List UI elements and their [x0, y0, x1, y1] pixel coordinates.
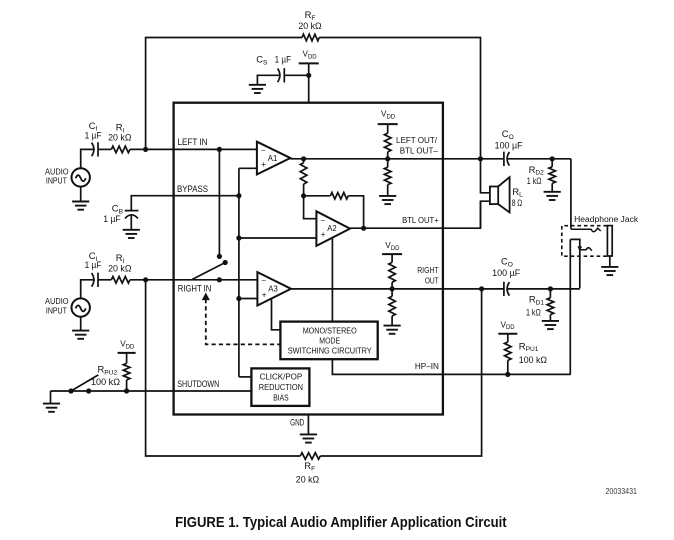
svg-text:INPUT: INPUT: [46, 306, 68, 316]
resistor RI (left): [111, 146, 130, 153]
wire bias rail to click/pop block: [239, 376, 252, 378]
resistor RPU1: [505, 334, 512, 375]
wire A1 output (LEFT OUT): [290, 158, 504, 160]
wire top feedback loop left segment: [146, 38, 302, 150]
node bias rail / A3 junction: [236, 296, 241, 301]
value 100 kOhm (RPU1): [519, 355, 548, 365]
speaker RL: [490, 177, 510, 212]
svg-text:HP–IN: HP–IN: [415, 361, 439, 371]
resistor A2 feedback: [330, 193, 348, 200]
pin label BTL OUT+: [402, 215, 439, 225]
node A2 output junction: [361, 226, 366, 231]
wire jack tip feed (from CO left): [570, 159, 572, 229]
pin label HP-IN: [415, 361, 439, 371]
label A1: [268, 154, 278, 163]
resistor left-out divider upper: [384, 124, 391, 159]
power VDD (left out divider): [378, 123, 398, 125]
resistor RD2: [549, 159, 556, 192]
svg-text:100 µF: 100 µF: [492, 268, 521, 278]
caption FIGURE 1: [175, 515, 507, 531]
pin label RIGHT IN: [178, 283, 212, 294]
wire A2 to mono/stereo block: [331, 238, 333, 322]
block MONO/STEREO MODE SWITCHING CIRCUITRY: [280, 322, 377, 360]
svg-text:BTL OUT–: BTL OUT–: [400, 145, 438, 155]
wire shutdown switch to ground: [51, 391, 72, 404]
node right input / feedback junction: [143, 277, 148, 282]
svg-text:SWITCHING CIRCUITRY: SWITCHING CIRCUITRY: [288, 347, 373, 356]
node mode switch on RIGHT IN wire: [217, 277, 222, 282]
svg-text:FIGURE 1. Typical Audio Amplif: FIGURE 1. Typical Audio Amplifier Applic…: [175, 515, 507, 531]
svg-text:100 µF: 100 µF: [495, 141, 524, 151]
svg-text:1 kΩ: 1 kΩ: [527, 176, 542, 186]
svg-text:VDD: VDD: [501, 320, 516, 331]
wire right source to ground: [80, 317, 82, 331]
IC block outline (amplifier): [174, 103, 443, 415]
node mode switch lever tip: [223, 260, 228, 265]
power VDD (right out divider): [382, 253, 402, 255]
label RI (right): [116, 252, 125, 265]
value 100 uF (CO left): [495, 141, 524, 151]
label RI (left): [116, 121, 125, 134]
ground (right-out divider): [384, 326, 401, 334]
figure number 20033431: [606, 486, 638, 496]
pin label RIGHT OUT: [417, 265, 439, 285]
wire bias rail to A3 plus input: [239, 298, 258, 300]
svg-text:RPU1: RPU1: [519, 340, 539, 353]
svg-text:MODE: MODE: [319, 337, 340, 346]
jack sense rectangle: [570, 239, 580, 288]
svg-text:1 µF: 1 µF: [275, 54, 292, 64]
AC source (right audio input): [72, 298, 90, 316]
wire CS cap to VDD node: [284, 74, 308, 76]
ground (RD1): [542, 321, 559, 329]
node mode switch upper contact: [217, 254, 222, 259]
svg-text:VDD: VDD: [381, 109, 396, 120]
svg-text:100 kΩ: 100 kΩ: [519, 355, 548, 365]
wire right source to CI: [81, 280, 95, 299]
svg-text:A3: A3: [268, 285, 278, 294]
wire node to feedback resistor: [304, 195, 331, 197]
capacitor CO (right): [504, 282, 510, 296]
node RPU1 / HP-IN junction: [505, 372, 510, 377]
jack ring contact arm: [577, 246, 592, 251]
svg-text:CO: CO: [502, 128, 514, 141]
wire RIGHT IN (RI to A3 minus input): [130, 279, 257, 281]
svg-text:1 µF: 1 µF: [85, 260, 102, 270]
label VDD (RPU2): [120, 340, 135, 351]
value 8 Ohm (RL): [512, 198, 523, 208]
node A1 output: [301, 156, 306, 161]
node VDD/CS junction: [306, 73, 311, 78]
power VDD (RPU1): [498, 333, 517, 335]
svg-text:20033431: 20033431: [606, 486, 638, 496]
label VDD (supply pin): [303, 50, 318, 61]
node shutdown switch right: [86, 388, 91, 393]
svg-text:MONO/STEREO: MONO/STEREO: [303, 326, 357, 335]
node left input / mode switch junction: [217, 147, 222, 152]
wire CO left to RD2 node: [507, 158, 571, 160]
wire bias rail to A2 plus input: [239, 237, 317, 239]
node RD1 top: [548, 286, 553, 291]
value 20 kOhm (RF bottom): [296, 474, 320, 484]
pin label GND: [290, 417, 304, 427]
jack tip contact arm: [571, 228, 601, 232]
svg-text:Headphone Jack: Headphone Jack: [574, 214, 639, 224]
ground (headphone jack): [601, 267, 618, 275]
pin label SHUTDOWN: [177, 379, 219, 390]
wire left source to ground: [80, 187, 82, 202]
svg-text:BYPASS: BYPASS: [177, 184, 208, 195]
capacitor CO (left): [504, 152, 510, 166]
wire internal bias rail: [238, 168, 240, 377]
value 1 uF (CB): [103, 214, 121, 224]
label VDD (RPU1): [501, 320, 516, 331]
ground (left audio input): [72, 202, 89, 210]
wire BYPASS (CB to internal node): [131, 196, 239, 211]
node RIGHT OUT / bottom feedback junction: [479, 286, 484, 291]
svg-text:VDD: VDD: [120, 340, 135, 351]
label CB: [112, 203, 124, 216]
value 20 kOhm (RF top): [298, 21, 322, 31]
pin label BYPASS: [177, 184, 208, 195]
wire LEFT IN (RI to A1 minus input): [130, 148, 257, 150]
node left-out divider: [385, 156, 390, 161]
svg-text:1 µF: 1 µF: [85, 131, 102, 141]
svg-text:GND: GND: [290, 417, 304, 427]
svg-text:VDD: VDD: [303, 50, 318, 61]
block CLICK/POP REDUCTION BIAS: [251, 368, 309, 406]
label VDD (left out divider): [381, 109, 396, 120]
node right-out divider: [390, 286, 395, 291]
svg-text:CS: CS: [256, 53, 268, 66]
label A2: [327, 224, 337, 233]
switch lever (shutdown): [71, 375, 98, 391]
label RD2: [529, 164, 545, 177]
wire speaker upper lead: [481, 159, 490, 193]
resistor A1 output divider upper: [300, 159, 307, 196]
svg-text:LEFT OUT/: LEFT OUT/: [396, 135, 438, 145]
ground (CS): [249, 85, 266, 93]
ground (CB): [123, 230, 140, 238]
label RPU1: [519, 340, 539, 353]
power VDD (RPU2): [118, 352, 136, 354]
svg-text:+: +: [262, 289, 267, 299]
label A3: [268, 285, 278, 294]
svg-text:+: +: [261, 159, 266, 169]
value 1 uF (CI right): [85, 260, 102, 270]
wire mode switch (LEFT IN drop): [218, 149, 220, 256]
node shutdown switch left: [68, 388, 73, 393]
resistor left-out divider lower: [384, 159, 391, 196]
node LEFT OUT / top feedback junction: [478, 156, 483, 161]
value 1 kOhm (RD1): [526, 308, 541, 318]
switch lever (mono/stereo select): [192, 263, 225, 280]
svg-text:RD1: RD1: [529, 294, 545, 307]
svg-text:20 kΩ: 20 kΩ: [296, 474, 320, 484]
wire feedback resistor to A2 output: [348, 196, 363, 228]
wire CI to RI (left): [98, 148, 111, 150]
op-amp A2: [316, 211, 350, 246]
node RPU2 / shutdown junction: [124, 388, 129, 393]
label RF bottom: [304, 460, 315, 473]
value 20 kOhm (RI left): [108, 132, 132, 142]
wire left source to CI: [81, 149, 95, 168]
svg-text:100 kΩ: 100 kΩ: [91, 377, 120, 387]
op-amp A1: [257, 142, 291, 175]
svg-text:20 kΩ: 20 kΩ: [108, 264, 132, 274]
label RF top: [305, 9, 316, 22]
label RD1: [529, 294, 545, 307]
label CO (right): [501, 256, 513, 269]
label AUDIO INPUT (right): [45, 296, 69, 315]
label CO (left): [502, 128, 514, 141]
svg-text:A2: A2: [327, 224, 337, 233]
svg-text:RIGHT IN: RIGHT IN: [178, 283, 212, 294]
svg-text:RD2: RD2: [529, 164, 545, 177]
label CI (left): [89, 120, 98, 133]
svg-text:BTL OUT+: BTL OUT+: [402, 215, 439, 225]
pin label LEFT OUT/BTL OUT-: [396, 135, 438, 155]
wire jack sleeve to ground: [609, 256, 611, 267]
node bias rail / A2 junction: [236, 235, 241, 240]
svg-text:INPUT: INPUT: [46, 176, 68, 186]
capacitor CI (left): [92, 142, 98, 156]
svg-text:CO: CO: [501, 256, 513, 269]
svg-text:20 kΩ: 20 kΩ: [108, 132, 132, 142]
label Headphone Jack: [574, 214, 639, 224]
label AUDIO INPUT (left): [45, 166, 69, 185]
label RL: [512, 186, 523, 199]
wire bias rail to A1 plus input: [239, 167, 257, 169]
svg-text:A1: A1: [268, 154, 278, 163]
value 1 uF (CS): [275, 54, 292, 64]
wire CS ground to cap: [257, 75, 280, 85]
svg-text:RIGHT: RIGHT: [417, 265, 439, 275]
svg-text:8 Ω: 8 Ω: [512, 198, 523, 208]
label VDD (right out divider): [385, 241, 400, 252]
wire mono/stereo block to HP-IN: [332, 359, 570, 374]
jack sleeve: [607, 226, 612, 256]
wire CO right to jack: [507, 288, 580, 290]
resistor RD1: [547, 289, 554, 321]
value 100 kOhm (RPU2): [91, 377, 120, 387]
resistor RF (top feedback): [302, 34, 319, 41]
node RD2 top: [550, 156, 555, 161]
svg-text:RPU2: RPU2: [98, 364, 118, 377]
ground (RD2): [544, 192, 561, 200]
label CI (right): [89, 250, 98, 263]
svg-text:REDUCTION: REDUCTION: [259, 383, 304, 392]
resistor RPU2: [123, 353, 130, 391]
capacitor CI (right): [92, 273, 98, 287]
wire VDD bar to node: [308, 63, 310, 75]
wire bottom feedback loop left segment: [146, 280, 301, 456]
ground (left-out divider): [379, 196, 396, 204]
ground (shutdown switch): [43, 404, 60, 412]
node left input / feedback junction: [143, 147, 148, 152]
svg-text:OUT: OUT: [425, 275, 439, 285]
resistor RF (bottom feedback): [300, 453, 320, 460]
wire bottom feedback loop right segment: [320, 289, 481, 456]
value 100 uF (CO right): [492, 268, 521, 278]
svg-text:+: +: [321, 229, 326, 239]
wire SHUTDOWN (switch to click/pop block): [71, 390, 251, 392]
node bias rail / BYPASS junction: [236, 193, 241, 198]
svg-text:SHUTDOWN: SHUTDOWN: [177, 379, 219, 390]
capacitor CS: [278, 68, 285, 82]
svg-text:RL: RL: [512, 186, 523, 199]
resistor right-out divider upper: [389, 254, 396, 289]
capacitor CB: [125, 211, 139, 230]
wire top feedback loop right segment: [319, 38, 480, 159]
svg-text:RF: RF: [304, 460, 315, 473]
wire A2 output (BTL OUT+): [350, 201, 481, 228]
power VDD (supply pin): [299, 62, 319, 64]
label CS: [256, 53, 268, 66]
wire A3 to mono/stereo block: [272, 299, 281, 330]
svg-text:CLICK/POP: CLICK/POP: [260, 373, 303, 382]
svg-text:LEFT IN: LEFT IN: [178, 137, 208, 148]
resistor right-out divider lower: [389, 289, 396, 326]
wire GND pin: [307, 415, 309, 435]
pin label LEFT IN: [178, 137, 208, 148]
wire CI to RI (right): [98, 279, 111, 281]
dashed control line (mono/stereo to switch): [203, 294, 281, 345]
svg-text:BIAS: BIAS: [273, 393, 288, 402]
node A1 divider / feedback junction: [301, 193, 306, 198]
wire VDD node to IC VDD pin: [308, 75, 310, 102]
value 1 uF (CI left): [85, 131, 102, 141]
op-amp A3: [257, 272, 291, 305]
label RPU2: [98, 364, 118, 377]
resistor RI (right): [111, 277, 130, 284]
ground (right audio input): [72, 331, 89, 339]
wire A3 output (RIGHT OUT): [291, 288, 504, 290]
svg-text:1 µF: 1 µF: [103, 214, 121, 224]
svg-text:20 kΩ: 20 kΩ: [298, 21, 322, 31]
ground (GND pin): [300, 434, 317, 442]
wire A2 minus input: [304, 196, 317, 219]
svg-text:1 kΩ: 1 kΩ: [526, 308, 541, 318]
value 20 kOhm (RI right): [108, 264, 132, 274]
svg-text:VDD: VDD: [385, 241, 400, 252]
value 1 kOhm (RD2): [527, 176, 542, 186]
wire jack HP sense line: [569, 239, 571, 374]
headphone jack dashed outline: [562, 226, 607, 257]
wire speaker lower lead: [481, 201, 490, 228]
AC source (left audio input): [72, 168, 90, 186]
